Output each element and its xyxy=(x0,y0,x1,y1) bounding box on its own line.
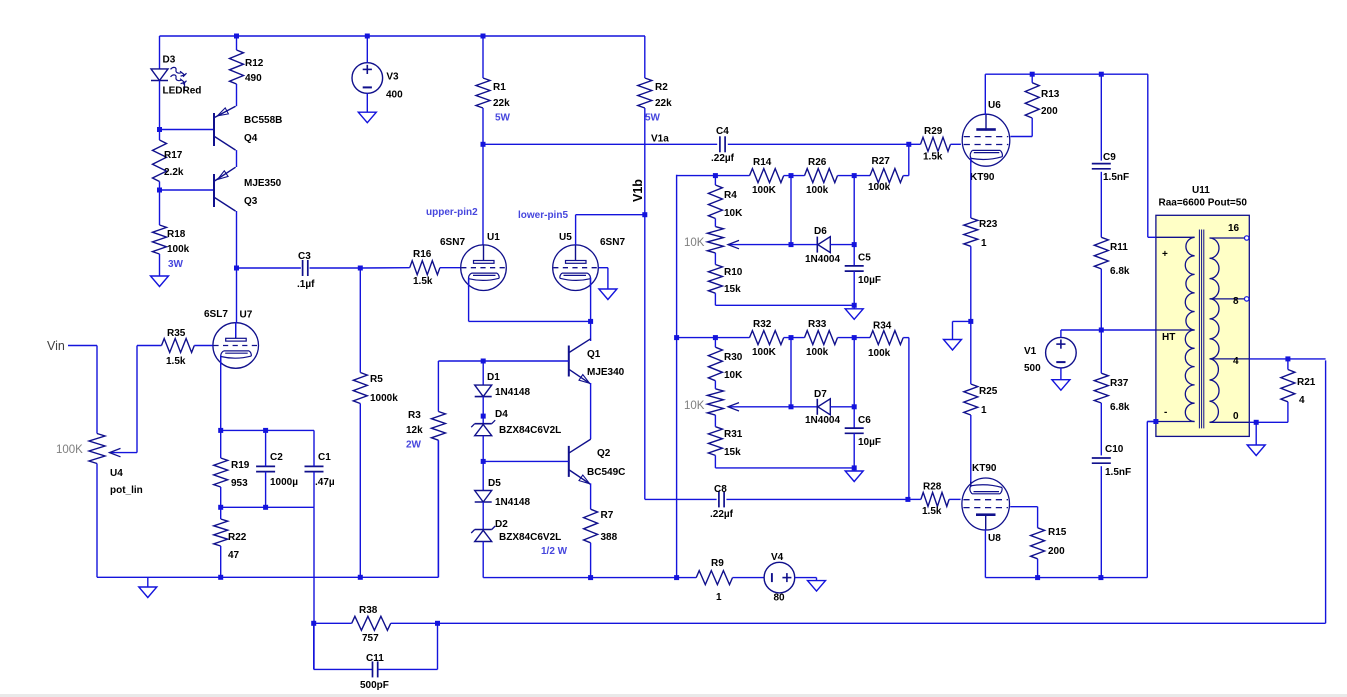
wire V1 to ground xyxy=(1060,368,1062,380)
svg-text:KT90: KT90 xyxy=(972,463,997,474)
wire R13 top lead xyxy=(1031,74,1033,83)
wire U6 plate up to B+ xyxy=(984,74,986,115)
wire R9 to V4 xyxy=(733,577,765,579)
svg-text:C4: C4 xyxy=(716,126,729,137)
svg-text:4: 4 xyxy=(1299,395,1305,406)
voltage source V1 xyxy=(1046,337,1077,368)
ground at U5 grid xyxy=(599,289,617,300)
svg-text:R3: R3 xyxy=(408,410,421,421)
svg-text:R7: R7 xyxy=(601,510,614,521)
junction C10 / plate run xyxy=(1098,575,1103,580)
svg-text:10K: 10K xyxy=(684,400,705,412)
ground below R18 xyxy=(151,276,169,287)
wire U7 plate from node C xyxy=(236,268,238,323)
svg-text:100k: 100k xyxy=(868,348,891,359)
wire Q1 emitter to Q2 collector xyxy=(590,383,592,439)
resistor R7 xyxy=(584,509,598,543)
svg-text:6SL7: 6SL7 xyxy=(204,309,228,320)
svg-text:400: 400 xyxy=(386,90,403,101)
junction cathode resistors xyxy=(968,319,973,324)
wire D3 branch down from top rail xyxy=(159,36,161,69)
svg-text:4: 4 xyxy=(1233,356,1239,367)
LED D3 xyxy=(151,69,168,81)
capacitor C2 xyxy=(256,465,275,467)
svg-text:200: 200 xyxy=(1048,546,1065,557)
node A junction (Q4 base) xyxy=(157,127,162,132)
wire V1b corner to C8 xyxy=(645,498,717,500)
resistor R35 xyxy=(162,339,195,353)
wire node B to Q3 base xyxy=(160,189,215,191)
resistor R28 xyxy=(921,492,949,506)
resistor R1 xyxy=(476,78,490,108)
svg-text:6SN7: 6SN7 xyxy=(600,237,625,248)
wire R7 to ground rail xyxy=(590,543,592,578)
junction C5 top xyxy=(852,242,857,247)
zener D4 (BZX84C6V2L) xyxy=(475,423,492,425)
svg-text:R12: R12 xyxy=(245,58,264,69)
svg-text:R23: R23 xyxy=(979,219,998,230)
junction C9 top xyxy=(1099,72,1104,77)
wire C1 leads xyxy=(313,430,315,466)
svg-text:490: 490 xyxy=(245,73,262,84)
junction between D1 and D4 xyxy=(481,414,486,419)
svg-text:D7: D7 xyxy=(814,389,827,400)
resistor R19 xyxy=(214,458,228,487)
wire pot-R31 xyxy=(714,415,716,427)
svg-text:BC549C: BC549C xyxy=(587,467,625,478)
transformer tap 0 lead xyxy=(1210,421,1250,423)
wire R1 top lead xyxy=(482,36,484,78)
svg-text:1: 1 xyxy=(716,592,722,603)
svg-text:15k: 15k xyxy=(724,284,741,295)
svg-text:Raa=6600 Pout=50: Raa=6600 Pout=50 xyxy=(1159,198,1248,209)
svg-text:R2: R2 xyxy=(655,82,668,93)
svg-text:1N4148: 1N4148 xyxy=(495,497,530,508)
svg-text:1: 1 xyxy=(981,405,987,416)
potentiometer upper 10K xyxy=(707,227,723,253)
wire D1 to D4 xyxy=(482,397,484,424)
pot wiper upper xyxy=(728,244,791,246)
svg-text:500: 500 xyxy=(1024,363,1041,374)
svg-text:R13: R13 xyxy=(1041,89,1060,100)
svg-text:Q1: Q1 xyxy=(587,349,601,360)
resistor R3 xyxy=(431,412,445,441)
svg-text:Q2: Q2 xyxy=(597,448,611,459)
wire R38 left lead xyxy=(314,622,352,624)
wire D7 to C6 column xyxy=(830,406,854,408)
junction V1b / U5 plate wire xyxy=(642,212,647,217)
junction R15 / plate run xyxy=(1035,575,1040,580)
junction R30 top xyxy=(713,335,718,340)
svg-text:R15: R15 xyxy=(1048,527,1067,538)
svg-text:R33: R33 xyxy=(808,319,827,330)
svg-text:100k: 100k xyxy=(167,244,190,255)
junction V1a node xyxy=(481,142,486,147)
svg-text:Q3: Q3 xyxy=(244,196,258,207)
svg-text:MJE340: MJE340 xyxy=(587,367,625,378)
junction upper net ground xyxy=(852,303,857,308)
junction R32/R33 xyxy=(789,335,794,340)
svg-text:R4: R4 xyxy=(724,190,737,201)
wire R21 leads xyxy=(1287,359,1289,370)
svg-text:100K: 100K xyxy=(752,347,777,358)
wire R14-R26 xyxy=(784,175,805,177)
wire wiper up xyxy=(136,346,138,453)
wire D6 to C5 column xyxy=(830,244,854,246)
svg-text:1.5k: 1.5k xyxy=(166,356,186,367)
svg-text:10K: 10K xyxy=(724,208,743,219)
wire R23 to cathode junction xyxy=(970,246,972,321)
svg-text:R18: R18 xyxy=(167,229,186,240)
svg-text:U5: U5 xyxy=(559,232,572,243)
svg-text:R35: R35 xyxy=(167,328,186,339)
svg-text:R9: R9 xyxy=(711,558,724,569)
svg-text:R30: R30 xyxy=(724,352,743,363)
wire cathode bottom row xyxy=(221,506,314,508)
resistor R21 xyxy=(1281,370,1295,402)
wire U5 cathode down xyxy=(590,278,592,322)
wire R13 to U6 screen xyxy=(1031,118,1033,137)
wire feedback up right edge xyxy=(1325,360,1327,623)
wire Vin down to pot xyxy=(96,346,98,434)
ground stub on left rail xyxy=(147,577,149,587)
svg-text:V4: V4 xyxy=(771,552,784,563)
ground symbol left rail xyxy=(139,587,157,598)
wire R2 top lead xyxy=(644,36,646,78)
svg-text:R32: R32 xyxy=(753,319,772,330)
svg-text:.22µf: .22µf xyxy=(711,153,735,164)
wire D3 to node A xyxy=(159,81,161,130)
resistor R31 xyxy=(708,427,722,456)
svg-text:100k: 100k xyxy=(806,185,829,196)
svg-text:.1µf: .1µf xyxy=(297,279,315,290)
capacitor C1 xyxy=(305,465,324,467)
svg-text:6SN7: 6SN7 xyxy=(440,237,465,248)
wire C6 col lower xyxy=(853,433,855,468)
svg-text:100K: 100K xyxy=(56,444,83,456)
wire C6 col upper xyxy=(853,338,855,429)
wire C1 node down to feedback row xyxy=(313,507,315,669)
svg-text:Vin: Vin xyxy=(47,339,65,353)
wire left ground rail xyxy=(97,576,438,578)
wire R3 to ground rail xyxy=(437,440,439,577)
resistor R33 xyxy=(805,331,838,345)
capacitor C6 xyxy=(845,427,864,429)
svg-text:R11: R11 xyxy=(1110,242,1128,253)
svg-text:R19: R19 xyxy=(231,460,250,471)
wire col x791 xyxy=(790,176,792,245)
wire plus feed xyxy=(1147,74,1149,237)
svg-text:+: + xyxy=(1162,249,1168,260)
wire C11 right leg xyxy=(378,668,438,670)
svg-text:388: 388 xyxy=(601,532,618,543)
wire R18 top lead xyxy=(159,190,161,225)
svg-text:U7: U7 xyxy=(240,310,253,321)
junction wiper/col lower xyxy=(789,404,794,409)
wire node A to Q4 base xyxy=(160,129,215,131)
svg-text:1000k: 1000k xyxy=(370,393,398,404)
svg-text:D2: D2 xyxy=(495,519,508,530)
svg-text:U6: U6 xyxy=(988,100,1001,111)
svg-text:R27: R27 xyxy=(872,156,891,167)
wire top B+ rail from LED branch to R2 xyxy=(160,35,646,37)
wire R30-pot xyxy=(714,381,716,389)
svg-text:BZX84C6V2L: BZX84C6V2L xyxy=(499,532,561,543)
svg-text:.22µf: .22µf xyxy=(710,509,734,520)
resistor R12 xyxy=(230,50,244,84)
junction R4 top xyxy=(713,173,718,178)
wire C9-R11 xyxy=(1100,172,1102,238)
svg-text:22k: 22k xyxy=(655,98,672,109)
terminal circle 16 xyxy=(1245,236,1249,240)
wire HT into box xyxy=(1156,329,1195,331)
svg-text:D3: D3 xyxy=(163,55,176,66)
voltage source V4 xyxy=(764,562,795,593)
wire C8 to R28 node xyxy=(726,498,908,500)
wire pot-R10 xyxy=(714,253,716,265)
wire R18 to ground xyxy=(159,254,161,276)
capacitor C11 xyxy=(372,661,374,677)
svg-text:R29: R29 xyxy=(924,126,943,137)
wire R27 up to V1a node xyxy=(903,175,909,177)
ground lower net xyxy=(845,471,863,482)
wire Q2 base row xyxy=(483,460,569,462)
junction R19 bottom xyxy=(218,505,223,510)
resistor R32 xyxy=(750,331,784,345)
transformer primary winding xyxy=(1185,237,1194,421)
junction top rail / V3 xyxy=(365,34,370,39)
diode D1 (1N4148) xyxy=(475,385,492,397)
junction rail / lower network xyxy=(674,335,679,340)
wire R29 left lead xyxy=(909,143,921,145)
junction node C (Q3 collector / C3 / U7 plate) xyxy=(234,266,239,271)
svg-text:10K: 10K xyxy=(684,237,705,249)
junction feedback right xyxy=(435,621,440,626)
svg-text:0: 0 xyxy=(1233,411,1239,422)
resistor R2 xyxy=(638,78,652,108)
svg-text:5W: 5W xyxy=(495,113,511,124)
wire 0 ground stub xyxy=(1255,422,1257,445)
wire V1 to HT row xyxy=(1060,330,1062,337)
capacitor C4 xyxy=(719,136,721,152)
resistor R16 xyxy=(410,261,440,275)
wire R12 top lead xyxy=(236,36,238,50)
resistor R30 xyxy=(708,347,722,381)
svg-text:10K: 10K xyxy=(724,370,743,381)
transformer tap 16 lead xyxy=(1210,237,1249,239)
triode U7 (6SL7) xyxy=(213,323,259,369)
wire R17 leads xyxy=(159,130,161,141)
resistor R14 xyxy=(750,169,784,183)
svg-text:R14: R14 xyxy=(753,157,772,168)
svg-text:200: 200 xyxy=(1041,106,1058,117)
capacitor C10 xyxy=(1092,457,1111,459)
potentiometer lower 10K xyxy=(707,389,723,415)
svg-text:V3: V3 xyxy=(386,72,399,83)
junction C2 top xyxy=(263,428,268,433)
wire R35 to U7 grid xyxy=(194,345,212,347)
svg-text:R5: R5 xyxy=(370,374,383,385)
resistor R23 xyxy=(964,218,978,246)
svg-text:16: 16 xyxy=(1228,223,1240,234)
wire cathode node to Q1 collector xyxy=(590,321,592,341)
svg-text:R38: R38 xyxy=(359,605,378,616)
potentiometer U4 100K xyxy=(89,434,105,464)
svg-text:Q4: Q4 xyxy=(244,133,258,144)
wire R28 to U8 grid xyxy=(949,498,961,500)
svg-text:R21: R21 xyxy=(1297,377,1316,388)
junction R22 / ground rail xyxy=(218,575,223,580)
wire B+ plate rail xyxy=(985,73,1148,75)
capacitor C9 xyxy=(1092,163,1111,165)
svg-text:6.8k: 6.8k xyxy=(1110,266,1130,277)
svg-text:R10: R10 xyxy=(724,267,743,278)
svg-text:1.5nF: 1.5nF xyxy=(1105,467,1131,478)
resistor R10 xyxy=(708,265,722,294)
wire D1 lead xyxy=(482,361,484,385)
triode U5 (6SN7 lower, mirrored) xyxy=(553,245,599,291)
wire R4 top lead xyxy=(714,176,716,185)
svg-text:BC558B: BC558B xyxy=(244,115,282,126)
pot wiper lower xyxy=(728,406,791,408)
resistor R5 xyxy=(353,373,367,404)
svg-text:1.5k: 1.5k xyxy=(413,276,433,287)
wire minus external xyxy=(1147,421,1156,423)
pentode U6 (KT90) xyxy=(962,114,1010,166)
resistor R27 xyxy=(870,169,903,183)
wire R34 down to R28 node xyxy=(903,337,909,339)
svg-text:2W: 2W xyxy=(406,440,422,451)
wire U5 grid to ground xyxy=(599,267,608,269)
ground at 0 tap xyxy=(1247,445,1265,456)
svg-text:C6: C6 xyxy=(858,415,871,426)
wire R10 bottom row xyxy=(714,293,716,305)
ground below V1 xyxy=(1052,380,1070,391)
svg-text:HT: HT xyxy=(1162,332,1175,343)
wire plate run up to transformer minus xyxy=(1146,422,1148,578)
svg-text:upper-pin2: upper-pin2 xyxy=(426,207,478,218)
junction lower net ground xyxy=(852,465,857,470)
wire wiper to D6 xyxy=(791,244,817,246)
resistor R17 xyxy=(153,140,167,182)
wire R30 top lead xyxy=(714,338,716,348)
svg-text:C1: C1 xyxy=(318,452,331,463)
junction C6 top xyxy=(852,404,857,409)
svg-text:22k: 22k xyxy=(493,98,510,109)
svg-text:1N4004: 1N4004 xyxy=(805,415,840,426)
svg-text:500pF: 500pF xyxy=(360,680,389,691)
svg-text:8: 8 xyxy=(1233,296,1239,307)
wire U1 cathode row xyxy=(469,320,591,322)
svg-text:R22: R22 xyxy=(228,532,247,543)
wire R3 column top xyxy=(437,361,439,412)
wire D5 to D2 xyxy=(482,502,484,530)
wire gnd stub lower xyxy=(853,468,855,471)
transformer plus lead xyxy=(1156,236,1195,238)
wire U1 cathode down xyxy=(468,278,470,322)
svg-text:R26: R26 xyxy=(808,157,827,168)
transformer U11 body xyxy=(1156,215,1249,436)
svg-text:757: 757 xyxy=(362,633,379,644)
wire col x791 lower xyxy=(790,338,792,407)
svg-text:R1: R1 xyxy=(493,82,506,93)
svg-text:C11: C11 xyxy=(366,653,384,664)
svg-text:6.8k: 6.8k xyxy=(1110,402,1130,413)
junction minus at box edge xyxy=(1153,419,1158,424)
resistor R9 xyxy=(696,571,732,585)
svg-text:V1: V1 xyxy=(1024,346,1037,357)
svg-text:100k: 100k xyxy=(868,182,891,193)
ground below V3 xyxy=(358,112,376,123)
junction rail x676 / ground xyxy=(674,575,679,580)
wire ground rail up to R3 xyxy=(437,440,439,577)
wire R22 leads xyxy=(220,507,222,519)
wire R16 to U1 grid xyxy=(440,267,461,269)
svg-text:C3: C3 xyxy=(298,251,311,262)
junction top rail / R1 xyxy=(481,34,486,39)
svg-text:47: 47 xyxy=(228,550,240,561)
wire C11 left leg xyxy=(313,623,315,669)
wire HT to R37 xyxy=(1100,330,1102,373)
svg-text:R17: R17 xyxy=(164,150,183,161)
svg-text:U11: U11 xyxy=(1192,185,1210,196)
wire R25 to U8 cathode xyxy=(970,415,972,487)
wire R19 leads xyxy=(220,430,222,458)
node B junction (Q3 base) xyxy=(157,188,162,193)
svg-text:10µF: 10µF xyxy=(858,437,881,448)
ground upper net xyxy=(845,309,863,320)
junction R26/R27 xyxy=(852,173,857,178)
wire Q3 collector down to node C xyxy=(236,211,238,268)
svg-text:1N4004: 1N4004 xyxy=(805,254,840,265)
wire lower ground run xyxy=(483,577,696,579)
svg-text:U4: U4 xyxy=(110,468,123,479)
svg-text:C9: C9 xyxy=(1103,152,1116,163)
junction Q2 base node xyxy=(481,459,486,464)
wire D4 to Q2 base node xyxy=(482,436,484,462)
wire Q2 emitter to R7 xyxy=(590,483,592,509)
svg-text:R31: R31 xyxy=(724,429,743,440)
transformer tap 4 lead xyxy=(1210,358,1250,360)
wire node D to R5 xyxy=(359,268,361,373)
svg-text:lower-pin5: lower-pin5 xyxy=(518,210,568,221)
wire R25 top lead xyxy=(970,321,972,384)
wire R2 down V1b rail xyxy=(644,108,646,499)
triode U1 (6SN7 upper) xyxy=(461,245,507,291)
resistor R15 xyxy=(1031,528,1045,559)
capacitor C5 xyxy=(845,265,864,267)
svg-text:R25: R25 xyxy=(979,386,998,397)
wire feedback long run xyxy=(438,622,1326,624)
resistor R25 xyxy=(964,384,978,415)
capacitor C3 xyxy=(302,260,304,276)
wire wiper to D7 xyxy=(791,406,817,408)
wire Q4 collector to Q3 emitter xyxy=(236,150,238,167)
junction D1 top xyxy=(481,359,486,364)
resistor R4 xyxy=(708,185,722,219)
svg-text:C2: C2 xyxy=(270,452,283,463)
wire R33-R34 xyxy=(838,337,871,339)
junction C2 bottom xyxy=(263,505,268,510)
wire V3 to ground xyxy=(366,93,368,112)
junction R13 top xyxy=(1030,72,1035,77)
wire gnd stub xyxy=(853,305,855,309)
wire R12 to Q4 emitter xyxy=(236,84,238,106)
junction cathode node (U1/U5/Q1) xyxy=(588,319,593,324)
wire tap 4 external xyxy=(1249,358,1325,360)
svg-text:MJE350: MJE350 xyxy=(244,178,282,189)
svg-text:1/2 W: 1/2 W xyxy=(541,546,568,557)
